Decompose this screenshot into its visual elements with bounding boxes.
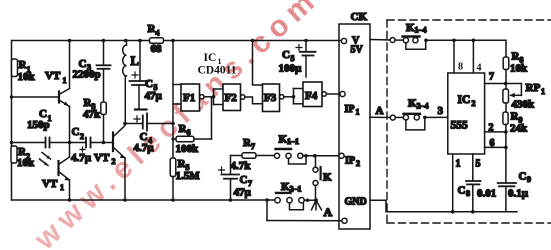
svg-text:24k: 24k — [510, 123, 528, 135]
svg-text:A: A — [376, 105, 384, 117]
potentiometer RP1 — [503, 82, 545, 112]
capacitor C9 — [498, 148, 531, 212]
pin5 wire / capacitor C8 — [458, 154, 497, 212]
svg-text:2: 2 — [80, 132, 84, 141]
switch K1-1 — [274, 134, 338, 165]
wire pin4 — [472, 40, 474, 73]
svg-text:4: 4 — [156, 29, 160, 38]
svg-text:1–1: 1–1 — [287, 137, 299, 146]
svg-text:C: C — [458, 185, 466, 197]
svg-text:1: 1 — [356, 108, 360, 117]
svg-text:1: 1 — [541, 87, 545, 96]
svg-text:IP: IP — [345, 104, 355, 115]
svg-text:47k: 47k — [83, 109, 101, 121]
IC2 555 box — [448, 73, 485, 154]
resistor R6 — [173, 97, 212, 155]
svg-text:10k: 10k — [510, 63, 528, 75]
capacitor C6 — [279, 41, 316, 78]
pin7 wire — [485, 72, 522, 84]
svg-text:100µ: 100µ — [279, 63, 303, 75]
svg-text:6: 6 — [187, 128, 191, 137]
node column x=173 / F1 input tie — [173, 41, 181, 159]
svg-text:2: 2 — [489, 123, 494, 134]
svg-text:2: 2 — [472, 99, 476, 108]
resistor R3 — [83, 97, 106, 143]
svg-text:VT: VT — [94, 152, 110, 164]
svg-text:68: 68 — [151, 43, 163, 55]
ground rail right — [370, 200, 517, 212]
svg-text:IC: IC — [204, 52, 217, 64]
svg-text:C: C — [72, 126, 80, 138]
svg-text:CD4011: CD4011 — [198, 65, 237, 77]
CK block — [339, 11, 370, 229]
svg-text:4.7µ: 4.7µ — [71, 152, 92, 164]
svg-text:2–4: 2–4 — [417, 102, 429, 111]
gate F3 — [263, 84, 284, 112]
svg-text:555: 555 — [451, 120, 469, 132]
wire F4 out to IP1 — [326, 93, 339, 95]
svg-text:www.elecfans.com: www.elecfans.com — [28, 0, 326, 250]
IC1 label — [198, 52, 237, 77]
svg-text:F3: F3 — [264, 92, 277, 104]
wire bottom rail — [12, 199, 275, 201]
svg-text:C: C — [145, 78, 153, 90]
gate F4 — [303, 82, 326, 107]
svg-text:2: 2 — [112, 157, 116, 166]
svg-text:7: 7 — [251, 142, 255, 151]
svg-text:47µ: 47µ — [234, 187, 252, 199]
wire 5V rail right — [426, 40, 506, 57]
resistor R7 — [231, 137, 275, 172]
wire top rail — [12, 41, 342, 201]
resistor R2 — [11, 146, 35, 169]
dashed box — [387, 20, 551, 223]
resistor R8 — [503, 51, 528, 84]
svg-text:5: 5 — [476, 159, 481, 170]
svg-text:4.7µ: 4.7µ — [134, 142, 155, 154]
switch K (vertical) — [313, 156, 332, 201]
svg-text:2200p: 2200p — [73, 69, 101, 81]
switch K2-4 — [370, 98, 448, 130]
svg-text:10k: 10k — [18, 71, 36, 83]
wire rail drop to F3 — [253, 41, 263, 86]
transistor VT1 (top) — [45, 41, 70, 143]
pin2 wire — [485, 123, 506, 134]
resistor R4 — [148, 23, 164, 55]
wire gnd to CK — [267, 220, 342, 222]
transistor VT1 (photo, bottom) — [40, 143, 70, 201]
svg-text:RP: RP — [526, 82, 541, 94]
resistor R9 — [503, 111, 528, 149]
svg-text:1: 1 — [63, 76, 67, 85]
svg-text:3: 3 — [438, 105, 444, 117]
svg-text:VT: VT — [45, 70, 61, 82]
resistor R5 — [170, 158, 200, 200]
svg-text:100k: 100k — [176, 143, 200, 155]
svg-text:GND: GND — [345, 197, 367, 208]
pin1 wire — [453, 154, 461, 212]
wire F2 out jog — [245, 97, 263, 104]
svg-text:0.1µ: 0.1µ — [508, 188, 529, 200]
wire pin8 — [453, 40, 455, 73]
svg-text:8: 8 — [466, 189, 470, 198]
capacitor C3 — [73, 41, 111, 103]
svg-text:VT: VT — [42, 178, 58, 190]
svg-text:C: C — [519, 171, 527, 183]
svg-text:1: 1 — [456, 159, 461, 170]
svg-text:IP: IP — [345, 156, 355, 167]
svg-text:2–1: 2–1 — [290, 185, 302, 194]
svg-text:1: 1 — [60, 183, 64, 192]
svg-text:4: 4 — [477, 63, 482, 74]
svg-text:F4: F4 — [305, 90, 318, 102]
resistor R1 — [12, 59, 36, 83]
pin labels 8 4 — [458, 62, 482, 74]
svg-text:F2: F2 — [225, 92, 238, 104]
svg-text:F1: F1 — [183, 92, 195, 104]
capacitor C2 — [70, 126, 114, 164]
gate F1 — [181, 84, 204, 111]
svg-text:430k: 430k — [512, 99, 536, 111]
switch K2-1 — [267, 181, 316, 221]
svg-text:2: 2 — [356, 159, 360, 168]
svg-text:9: 9 — [527, 175, 531, 184]
svg-text:47µ: 47µ — [145, 90, 163, 102]
svg-text:8: 8 — [458, 62, 463, 73]
wire F1 out / tie F2 — [204, 89, 223, 105]
node A arrow — [312, 200, 333, 219]
capacitor C4 — [125, 114, 173, 155]
svg-text:1.5M: 1.5M — [176, 170, 201, 182]
svg-text:0.01: 0.01 — [477, 188, 496, 200]
svg-text:4.7k: 4.7k — [231, 160, 252, 172]
svg-text:6: 6 — [490, 138, 495, 149]
watermark — [28, 0, 326, 250]
capacitor C1 — [12, 108, 70, 148]
svg-text:7: 7 — [489, 72, 494, 83]
wire VT1 base — [12, 96, 60, 98]
svg-text:1–4: 1–4 — [415, 26, 427, 35]
svg-text:C: C — [240, 174, 248, 186]
pin6 wire — [485, 138, 506, 149]
capacitor C7 — [219, 156, 253, 201]
svg-text:150p: 150p — [27, 119, 50, 131]
svg-text:K: K — [323, 172, 332, 184]
svg-text:IC: IC — [458, 94, 471, 106]
gate F2 — [223, 84, 245, 111]
svg-text:10k: 10k — [17, 157, 35, 169]
inductor L — [123, 41, 139, 124]
wire F3 out / tie F4 — [284, 89, 303, 104]
switch K1-4 — [370, 22, 427, 49]
svg-text:C: C — [282, 49, 290, 61]
transistor VT2 — [94, 126, 125, 201]
svg-text:L: L — [131, 54, 139, 68]
svg-text:5V: 5V — [351, 45, 364, 56]
svg-text:CK: CK — [351, 11, 368, 23]
svg-text:A: A — [324, 205, 333, 219]
capacitor C5 — [130, 41, 163, 110]
